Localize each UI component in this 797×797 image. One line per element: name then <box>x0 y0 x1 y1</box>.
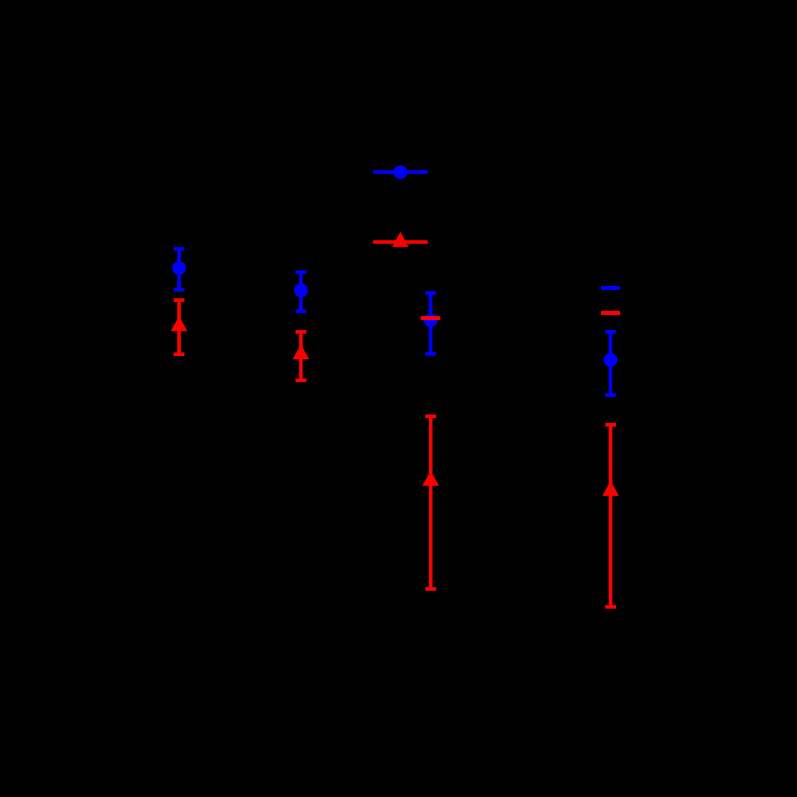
group4 blue top cap <box>605 330 616 334</box>
group1 red top cap <box>174 298 185 302</box>
group4 blue errorbar line <box>609 332 613 395</box>
legend blue line <box>373 170 428 174</box>
group1 red errorbar line <box>177 300 181 354</box>
group3 blue circle marker <box>424 313 438 327</box>
group2 red top cap <box>296 330 307 334</box>
group3 red top cap <box>425 414 436 418</box>
group4 red errorbar line <box>609 425 613 607</box>
group1 red triangle marker <box>171 316 188 331</box>
group4 red bottom cap <box>605 605 616 609</box>
group2 red errorbar line <box>299 332 303 380</box>
group3 blue errorbar line <box>429 293 433 354</box>
group4 blue circle marker <box>604 353 618 367</box>
group2 blue top cap <box>296 270 307 274</box>
group3 blue top cap <box>425 291 436 295</box>
group2 red triangle marker <box>293 344 310 359</box>
group3 red dash marker <box>421 316 441 320</box>
group1 blue top cap <box>174 247 185 251</box>
group2 blue circle marker <box>294 283 308 297</box>
group4 blue dash marker <box>601 286 620 290</box>
group1 blue bottom cap <box>174 288 185 292</box>
group2 red bottom cap <box>296 378 307 382</box>
group4 red triangle marker <box>602 481 619 496</box>
legend red triangle marker <box>392 232 409 247</box>
group3 red bottom cap <box>425 587 436 591</box>
legend blue circle marker <box>394 165 408 179</box>
group3 red errorbar line <box>429 416 433 589</box>
group4 red top cap <box>605 423 616 427</box>
group4 blue bottom cap <box>605 393 616 397</box>
group3 blue bottom cap <box>425 352 436 356</box>
group3 red triangle marker <box>422 471 439 486</box>
legend red line <box>373 240 428 244</box>
group2 blue bottom cap <box>296 309 307 313</box>
group4 red dash marker <box>601 311 620 315</box>
group1 blue errorbar line <box>177 249 181 290</box>
group1 blue circle marker <box>172 261 186 275</box>
group1 red bottom cap <box>174 352 185 356</box>
group2 blue errorbar line <box>299 272 303 311</box>
